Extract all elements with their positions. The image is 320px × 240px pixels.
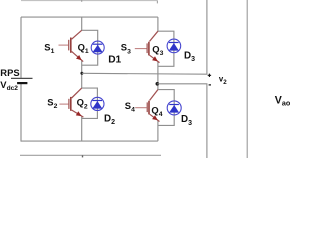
wire left dc rail lower xyxy=(20,84,22,142)
svg-text:D3: D3 xyxy=(184,50,195,63)
wire Q2 emitter to bottom rail xyxy=(81,116,83,141)
wire Q3 collector xyxy=(157,17,159,31)
wire v2 plus terminal xyxy=(82,0,207,74)
svg-text:D3: D3 xyxy=(181,114,192,127)
svg-text:D2: D2 xyxy=(104,114,115,127)
wire left dc rail upper xyxy=(20,17,22,78)
svg-text:D1: D1 xyxy=(108,55,121,66)
wire upper-bridge left-leg stub xyxy=(81,0,83,2)
transistor Q4 xyxy=(135,90,159,122)
wire upper-bridge bottom rail xyxy=(21,0,157,2)
transistor Q3 xyxy=(135,31,160,62)
svg-text:RPS: RPS xyxy=(0,67,19,78)
diode D2 xyxy=(91,97,104,110)
node right leg midpoint xyxy=(156,82,160,86)
wire left leg mid (Q1 emitter to Q2 collector) xyxy=(81,60,83,88)
svg-text:S2: S2 xyxy=(47,96,57,110)
wire Q1 collector xyxy=(81,17,83,30)
wire D4 branch xyxy=(158,90,174,126)
svg-text:Vdc2: Vdc2 xyxy=(0,79,18,92)
svg-text:S1: S1 xyxy=(44,41,54,55)
node lower-bridge leg stub xyxy=(82,155,84,157)
svg-text:Vao: Vao xyxy=(275,94,290,107)
wire v2 minus terminal xyxy=(157,84,207,158)
battery RPS negative plate xyxy=(17,82,27,84)
diode D1 xyxy=(91,41,104,54)
svg-text:Q2: Q2 xyxy=(77,97,88,111)
transistor Q2 xyxy=(59,88,83,117)
svg-text:Q3: Q3 xyxy=(152,44,163,58)
battery RPS positive plate xyxy=(11,77,33,79)
wire upper-bridge right-leg stub xyxy=(156,1,158,4)
label plus xyxy=(208,74,211,77)
wire D2 branch xyxy=(82,88,98,118)
svg-text:Q1: Q1 xyxy=(78,42,89,56)
svg-text:S4: S4 xyxy=(125,100,135,114)
wire right leg mid (Q3 emitter to Q4 collector) xyxy=(157,61,159,89)
svg-text:v2: v2 xyxy=(219,74,227,86)
svg-text:S3: S3 xyxy=(121,42,131,56)
label minus xyxy=(209,84,211,86)
wire bottom dc rail xyxy=(21,140,158,142)
diode D3 xyxy=(167,39,181,53)
wire lower-bridge top rail xyxy=(20,154,161,156)
transistor Q1 xyxy=(59,30,84,61)
wire output rail xyxy=(246,0,248,158)
wire D1 branch xyxy=(82,30,98,65)
node left leg midpoint xyxy=(80,72,83,75)
wire top dc rail xyxy=(21,16,158,18)
wire D3 branch xyxy=(158,31,174,66)
diode D4 xyxy=(167,101,181,115)
wire Q4 emitter to bottom rail xyxy=(157,120,159,141)
